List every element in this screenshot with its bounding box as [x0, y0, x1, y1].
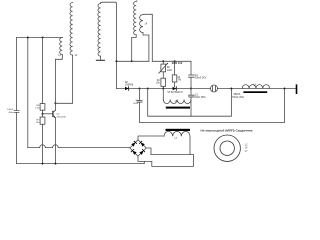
wire bottom return	[152, 155, 194, 167]
wire L4 bottom to bus A	[143, 33, 149, 62]
wire trimmer chain	[162, 61, 164, 88]
diode D2	[125, 87, 129, 91]
svg-text:40uF 450v: 40uF 450v	[195, 97, 207, 99]
svg-text:2SC5200: 2SC5200	[57, 116, 67, 118]
resistor R7	[40, 117, 45, 124]
svg-text:2.2k: 2.2k	[35, 108, 40, 110]
node inner return left	[147, 88, 149, 90]
core bar L5	[166, 107, 190, 109]
svg-text:R1: R1	[157, 80, 161, 82]
core bar L7	[166, 129, 191, 131]
wire bottom bus	[17, 161, 145, 163]
inductor L1	[60, 38, 63, 55]
wire second vertical	[27, 38, 29, 148]
wire bus A	[116, 60, 148, 62]
node L5 left	[162, 88, 164, 90]
svg-text:22k: 22k	[156, 83, 161, 85]
node inner return right	[230, 88, 232, 90]
capacitor C3	[189, 95, 195, 97]
bridge rectifier	[130, 140, 146, 156]
resistor 2k7W	[172, 75, 177, 82]
node A	[27, 37, 29, 39]
svg-text:90uF: 90uF	[133, 103, 139, 105]
svg-text:2k: 2k	[178, 77, 181, 79]
wire collector up	[54, 103, 56, 110]
diode D3	[173, 87, 177, 91]
ground	[100, 56, 102, 60]
wire emitter down	[54, 118, 56, 164]
capacitor C4	[137, 101, 142, 103]
wire inner return	[148, 89, 232, 117]
svg-text:L1: L1	[58, 55, 61, 57]
wire L3 top hook	[135, 0, 138, 3]
svg-text:150: 150	[36, 122, 40, 124]
wire top-left horizontal bus	[17, 37, 63, 39]
capacitor C2	[189, 75, 195, 77]
inductor L4	[140, 15, 143, 33]
inductor L6	[242, 85, 269, 89]
wire L5 right drop	[190, 100, 192, 117]
wire resistor-chain vertical top	[42, 38, 44, 104]
wire bridge top to L7	[138, 136, 164, 140]
svg-text:C2: C2	[195, 75, 199, 77]
wire L3 bottom to bus	[132, 35, 137, 62]
svg-text:ST-B-HXER-47: ST-B-HXER-47	[167, 92, 183, 94]
resistor R1	[161, 78, 166, 86]
capacitor C10	[14, 111, 19, 113]
svg-text:7W: 7W	[178, 80, 182, 82]
inductor L2b grounded winding	[98, 4, 101, 57]
node return outer right	[284, 88, 286, 90]
wire R7 to bottom bus	[42, 124, 44, 163]
terminal bar right	[296, 85, 298, 93]
wire 2k chain	[174, 61, 176, 86]
node trimmer top	[162, 60, 164, 62]
svg-text:Q2: Q2	[57, 114, 61, 116]
wire L5 left drop	[162, 89, 164, 100]
node bottom bus emitter	[54, 163, 56, 165]
wire L4 top to section rail riser	[143, 14, 152, 61]
wire main rail	[116, 88, 296, 90]
svg-text:450v: 450v	[8, 112, 14, 114]
inductor L5	[163, 100, 191, 104]
transistor Q2	[52, 111, 54, 116]
node B	[42, 37, 44, 39]
wire collector junction to L2 bottom	[55, 55, 72, 103]
svg-text:100uF: 100uF	[7, 109, 14, 111]
wire C2 branch down	[190, 61, 192, 99]
wire section rail	[152, 60, 191, 62]
core bar L6	[243, 91, 267, 93]
node collector junction	[54, 102, 56, 104]
svg-text:700uF 450v: 700uF 450v	[232, 97, 245, 99]
inductor L3	[134, 2, 137, 35]
node L3 bus	[131, 60, 133, 62]
wire L2b top to x116	[101, 2, 117, 88]
svg-text:200uF 2KV: 200uF 2KV	[195, 78, 207, 80]
svg-text:L4: L4	[145, 23, 148, 25]
node bottom bus R7	[42, 163, 44, 165]
wire AC line	[28, 145, 130, 148]
wire base	[43, 113, 53, 115]
svg-text:Не переходной (МПП) Сердечник: Не переходной (МПП) Сердечник	[201, 128, 254, 132]
meter circle	[211, 85, 218, 92]
svg-text:MMC6: MMC6	[234, 94, 241, 96]
svg-text:L7: L7	[245, 151, 248, 153]
node C4 top	[139, 88, 141, 90]
wire left vertical rail	[16, 38, 18, 164]
wire R6-R7 link	[42, 110, 44, 117]
svg-text:R2: R2	[167, 67, 171, 69]
svg-text:L7: L7	[175, 138, 178, 140]
wire C4 branch	[140, 89, 285, 123]
wire L1 bottom to collector rail	[55, 54, 62, 103]
svg-text:100k: 100k	[167, 70, 173, 72]
svg-text:L2: L2	[245, 144, 248, 146]
svg-text:L4: L4	[245, 148, 248, 150]
node 2k top	[174, 60, 176, 62]
node rail C2	[190, 88, 192, 90]
wire L7 right drop	[189, 136, 191, 154]
node bus A left	[115, 60, 117, 62]
resistor R6	[40, 104, 45, 111]
toroid core	[214, 135, 240, 161]
svg-text:BR2 102: BR2 102	[172, 61, 183, 65]
svg-text:L2: L2	[75, 55, 78, 57]
svg-text:1N5408: 1N5408	[125, 84, 134, 87]
resistor R2 trimmer	[161, 64, 166, 72]
inductor L2	[70, 3, 73, 56]
node base junction	[42, 113, 44, 115]
wire bridge bottom	[138, 156, 152, 161]
inductor L7	[164, 131, 190, 136]
wire bridge right vertex	[146, 148, 193, 155]
